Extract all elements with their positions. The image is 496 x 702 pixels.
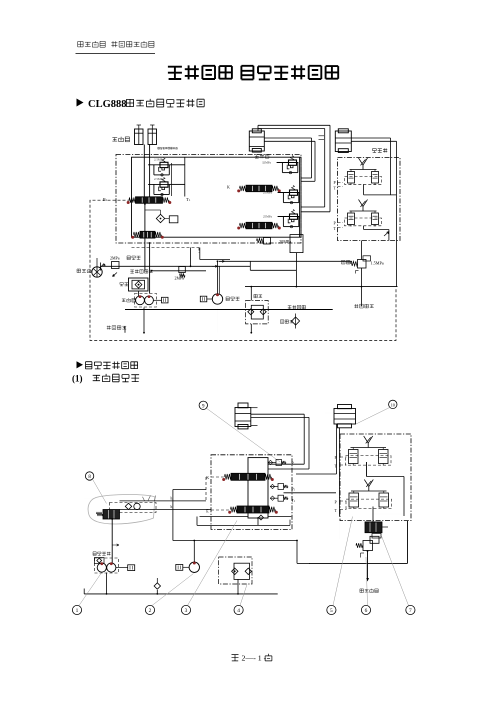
D2 pump group (double) [95,558,119,573]
D2 main valve block (dash-dot) [211,455,292,530]
D1 pilot block inner wires [363,185,365,195]
svg-text:P: P [334,221,337,226]
svg-text:20MPa: 20MPa [279,239,291,244]
D1 accumulator cylinder 蓄能器 [335,129,351,153]
D1 spool valve B1 (boom section) [237,185,281,192]
D1 label: 滤芯 [120,283,128,286]
D1 pilot relief valve 1.5MPa [358,260,367,269]
D1 pilot supply line to reducing valve [219,260,352,262]
D1 test port M1 [153,299,161,301]
svg-text:2: 2 [149,608,152,614]
D2 pilot pump right [189,562,199,572]
D1 cylinder: boom cylinder 动臂缸 [249,129,264,152]
D1 label: 单向阀 [280,320,293,324]
D2 valve body [248,458,268,518]
D2 callout 8 with leader [85,472,93,480]
D1 wires valve block to tank unit [144,238,146,271]
D2 spool valve S1 [222,473,274,481]
D2 hand valve output lines [120,500,207,502]
D1 check valve + port relief under A1 [156,214,164,222]
D2 wire junction dots [111,518,113,520]
D1 label: 动臂缸 [255,154,269,158]
svg-text:2.5MPa: 2.5MPa [154,177,164,181]
D1 pilot pump 先导泵 [212,294,222,304]
svg-text:10: 10 [391,402,395,407]
D1 relief unit L1 (double acting safety valve) [148,158,170,176]
D1 pilot reducing valve pair 2 [345,200,382,227]
D1 pilot valve block (dash-dot) 先导阀 [338,158,401,241]
D1 relief unit R1 [277,156,299,174]
D2 boom cylinder 动臂缸 [334,405,356,428]
D2 spool valve S2 [228,506,278,514]
D1 return line upper [212,265,218,267]
svg-text:T: T [335,508,338,513]
footer: page number 第 2—- 1 -页 [232,653,272,662]
D2 hand valve drain down [111,519,113,563]
svg-text:2.5MPa: 2.5MPa [154,158,164,162]
D2 tilt cylinder 转斗缸 [235,403,258,429]
D1 main relief valve 安全阀 20MPa [264,238,271,245]
D1 dashed pilot/tank enclosure [90,200,396,340]
D1 label: 散热器 [77,269,91,273]
svg-text:P: P [292,462,294,466]
D1 relief unit R2 [278,186,300,204]
svg-text:h: h [171,497,173,501]
D2 pilot reducing valve 先导减压阀 [363,541,373,551]
heading: CLG888 loader hydraulic system diagram [77,99,205,111]
svg-text:P1: P1 [103,197,108,202]
D2 spool S2 pilot dashed [211,509,230,511]
svg-text:T1: T1 [186,197,191,202]
svg-text:25MPa: 25MPa [263,191,273,195]
D1 label: 先导泵 [226,297,240,301]
D2 relief unit mid1 [270,484,288,490]
D1 suction strainer 滤网 [246,301,269,324]
D1 valve body outline [132,157,302,237]
D1 label: 测压接头 below [354,304,373,308]
D2 shuttle/filter stack [365,522,382,533]
D1 pilot reducing valve pair 1 [345,158,382,185]
heading: 工作液压系统 [77,361,138,369]
svg-text:CLG888: CLG888 [88,99,127,110]
D1 label: line marks 2x [319,135,325,137]
D2 wire mid-relief to pilot block [284,492,337,494]
svg-text:8: 8 [88,475,91,480]
svg-text:K: K [227,185,230,190]
D2 hand pilot valve blob outline [88,495,155,525]
D1 label: 减压阀 [341,260,350,264]
D2 pilot block inner wires [366,462,368,477]
D1 wire: boom cylinder ports to valve B row [264,137,311,139]
svg-text:(1): (1) [72,374,83,384]
heading: （1）液压原理图 [72,374,139,384]
svg-text:9: 9 [202,404,205,409]
D1 bypass valve 2MPa 旁通阀 [112,262,120,269]
D1 pilot dashed line bottom of block [132,247,200,249]
D1 spool valve A2 (aux section) [131,231,164,239]
D2 solid return enclosure right [309,562,408,564]
D1 cylinder: tipping cylinder 翻斗缸 (pair) [135,129,157,145]
svg-text:T1: T1 [292,499,296,503]
D2 callout 9 with leader [199,401,207,409]
D1 label: 液压油箱 [107,326,126,330]
D1 label: 先导阀 [373,148,388,152]
D2 suction strainer 滤网 [219,557,253,584]
D1 filler check valve 单向阀 [292,317,300,325]
svg-text:P1: P1 [292,488,296,492]
D1 wire: top rails to valve B2 [258,124,330,126]
svg-text:K: K [206,475,209,480]
D1 wire: tipping cylinder to valve A1 [143,145,145,197]
svg-text:2—- 1 -: 2—- 1 - [242,653,267,662]
svg-text:25MPa: 25MPa [263,215,273,219]
D2 pilot filter 先导滤清器 [93,552,111,556]
D1 label: 加油滤芯 [288,305,306,309]
svg-text:P: P [335,500,338,505]
D1 relief unit L2 [148,177,170,195]
D1 label: （带双作用安全阀） [158,147,178,149]
D1 main control valve block (dash-dot) [116,155,301,244]
svg-text:T: T [334,186,337,191]
D1 return filter 回油滤清器 [129,278,149,291]
header underline [76,53,156,55]
D1 label: 工作泵 [122,298,135,302]
svg-text:P: P [335,455,338,460]
D2 wire: boom cylinder down right side [336,424,338,474]
D1 spool valve B2 [237,222,281,229]
D1 label: 翻斗缸 [112,137,129,142]
svg-text:h: h [171,505,173,509]
D2 callout 10 with leader [389,400,397,408]
D1 relief unit wires [170,164,185,166]
D2 spool S1 pilot dashed [211,476,224,478]
D1 label: 回油滤清器 [130,270,152,274]
D2 relief unit top [268,460,286,466]
D2 bottom suction line [84,593,278,595]
svg-text:5: 5 [330,608,333,614]
D2 relief unit mid2 [270,495,288,501]
D1 return relief 2MPa [179,267,186,273]
D2 valve bottom wires [257,518,259,525]
D2 pilot pair 2 [346,480,392,510]
svg-text:3: 3 [185,608,188,614]
D1 wire junction dots [144,203,146,205]
D2 pilot pair 1 [346,436,392,466]
D1 relief unit R3 [278,210,300,228]
D1 inner rail [184,157,186,196]
header: running head 第二部分 工作液压系统 [78,41,154,47]
D1 spool valve A1 (tilt section) [127,197,172,204]
D1 return main line right [245,286,398,288]
svg-text:1.5MPa: 1.5MPa [371,261,384,266]
D2 wire: tilt cylinder to valve [251,413,304,415]
D2 callout leaders [79,574,101,606]
D2 hand pilot valve 手动先导阀 [110,503,157,513]
svg-text:32MPa: 32MPa [262,161,272,165]
D2 pilot valve block right (dash-dot) [340,434,411,521]
D1 working pump 工作泵 (double) [135,294,157,308]
svg-text:1: 1 [76,608,79,614]
D2 callouts bottom row [72,605,81,614]
svg-text:2MPa: 2MPa [175,276,185,281]
D1 tipping cylinder port stubs [138,125,140,129]
D1 return line lower [152,270,207,272]
svg-text:T: T [335,464,338,469]
D2 test port left [116,567,128,569]
svg-text:T: T [334,226,337,231]
svg-text:P: P [334,180,337,185]
svg-text:7: 7 [409,608,412,614]
D1 relief unit rail [299,157,301,237]
D1 label: 滤网 [254,294,262,297]
svg-text:6: 6 [365,608,368,614]
title: 第二部分 工作液压系统 [168,65,338,79]
D1 pilot relief wires [361,241,363,260]
D1 suction line [125,309,333,311]
svg-text:4: 4 [237,608,240,614]
D2 label under reducing valve [360,589,378,593]
svg-text:2MPa: 2MPa [110,256,120,261]
D1 radiator 散热器 [92,267,102,277]
D1 wire: accumulator to pilot supply [351,137,390,139]
